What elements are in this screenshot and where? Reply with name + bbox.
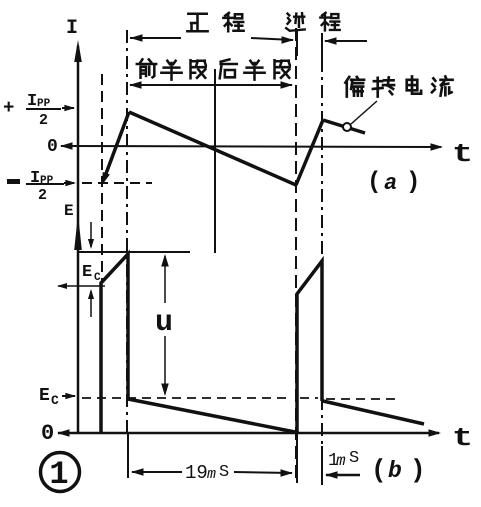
svg-text:t: t [452, 424, 473, 453]
svg-text:(: ( [367, 169, 381, 196]
svg-text:m: m [336, 452, 346, 470]
svg-text:0: 0 [47, 137, 58, 157]
svg-text:(: ( [371, 455, 387, 485]
svg-text:PP: PP [40, 175, 54, 187]
svg-text:1: 1 [49, 456, 68, 493]
svg-text:C: C [94, 272, 101, 284]
svg-text:u: u [155, 306, 173, 340]
svg-text:19: 19 [185, 462, 208, 484]
svg-text:2: 2 [39, 112, 48, 129]
svg-text:+: + [3, 97, 14, 119]
svg-text:a: a [384, 171, 397, 196]
svg-text:t: t [452, 140, 473, 169]
svg-text:S: S [219, 463, 229, 482]
svg-text:E: E [64, 202, 74, 220]
svg-text:0: 0 [41, 421, 54, 446]
svg-text:S: S [349, 449, 359, 468]
svg-text:I: I [66, 17, 78, 40]
svg-text:C: C [51, 393, 59, 408]
svg-text:b: b [388, 458, 402, 484]
svg-text:2: 2 [38, 187, 47, 204]
svg-text:E: E [39, 386, 50, 406]
svg-text:): ) [406, 169, 420, 196]
svg-text:I: I [30, 169, 40, 188]
svg-text:): ) [410, 455, 426, 485]
svg-text:m: m [207, 466, 216, 483]
svg-text:E: E [82, 263, 92, 282]
